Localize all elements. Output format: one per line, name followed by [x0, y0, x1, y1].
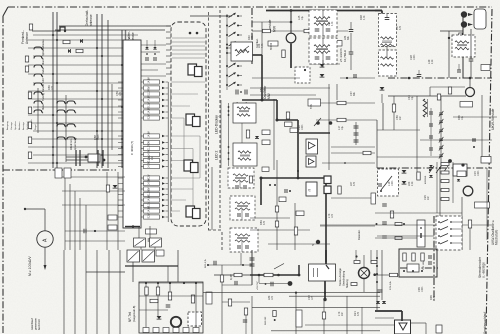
svg-text:LED 2: LED 2 [215, 150, 219, 160]
svg-text:4,7k: 4,7k [363, 15, 366, 20]
svg-text:≈: ≈ [308, 188, 311, 194]
svg-text:spannung: spannung [73, 137, 77, 150]
svg-text:11,2V: 11,2V [148, 89, 151, 95]
svg-text:4,7k: 4,7k [331, 21, 334, 26]
svg-text:11,2V: 11,2V [148, 190, 151, 196]
svg-text:Bandb.: Bandb. [41, 83, 45, 92]
svg-text:14,3V: 14,3V [148, 195, 151, 202]
svg-text:0V: 0V [148, 86, 151, 89]
svg-text:NF-Teil: NF-Teil [128, 312, 132, 322]
svg-text:100n: 100n [97, 134, 100, 140]
svg-text:14,3V: 14,3V [148, 131, 151, 138]
svg-text:14,3V: 14,3V [148, 107, 151, 114]
svg-text:0,2V: 0,2V [148, 174, 151, 179]
svg-text:100n: 100n [421, 286, 424, 292]
svg-text:14,3V: 14,3V [148, 149, 151, 156]
svg-text:22n: 22n [341, 311, 344, 316]
svg-text:C 4090 (7): C 4090 (7) [130, 141, 134, 155]
svg-text:2,2k: 2,2k [431, 59, 434, 64]
svg-text:Anzeige: Anzeige [22, 121, 25, 130]
svg-text:Vorzugs: Vorzugs [10, 121, 13, 130]
svg-text:Stereo: Stereo [41, 39, 45, 47]
svg-text:Sprache: Sprache [41, 46, 45, 56]
svg-text:1n5: 1n5 [311, 295, 314, 300]
svg-text:10,7MHz: 10,7MHz [343, 49, 347, 62]
svg-text:470: 470 [357, 311, 360, 316]
svg-text:470: 470 [353, 181, 356, 186]
svg-text:14,3V: 14,3V [148, 206, 151, 213]
svg-text:14,3V: 14,3V [148, 77, 151, 84]
svg-text:Abstimm: Abstimm [18, 121, 21, 130]
svg-text:22n: 22n [427, 195, 430, 200]
svg-text:10µ: 10µ [263, 87, 266, 92]
svg-text:Antenne: Antenne [25, 32, 29, 44]
svg-text:1n5: 1n5 [271, 295, 274, 300]
svg-text:100n: 100n [413, 54, 416, 60]
svg-text:+5V C47: +5V C47 [257, 281, 259, 290]
svg-text:14,3V: 14,3V [148, 178, 151, 185]
svg-text:Speicher: Speicher [14, 121, 17, 130]
svg-text:0,2V: 0,2V [148, 213, 151, 218]
svg-text:10µ: 10µ [341, 125, 344, 130]
svg-text:100n: 100n [301, 124, 304, 130]
svg-text:2,1V: 2,1V [148, 202, 151, 207]
svg-text:0,2V: 0,2V [148, 114, 151, 119]
svg-text:UKW-Vorstufe: UKW-Vorstufe [491, 108, 495, 130]
svg-text:M ≥ 100kΩ/V: M ≥ 100kΩ/V [28, 256, 32, 276]
svg-text:R66 663: R66 663 [265, 316, 267, 325]
svg-text:Regel: Regel [35, 124, 37, 130]
svg-text:22n: 22n [399, 115, 402, 120]
svg-text:BF440: BF440 [270, 42, 273, 50]
svg-text:10µ: 10µ [461, 115, 464, 120]
svg-text:Suchlauf: Suchlauf [27, 121, 29, 130]
svg-text:4,7k: 4,7k [261, 43, 264, 48]
svg-text:470: 470 [399, 25, 402, 30]
svg-text:R62 4,7k: R62 4,7k [205, 258, 207, 268]
svg-text:Stereo-Anzeige: Stereo-Anzeige [338, 268, 342, 286]
svg-text:MW: MW [267, 93, 271, 99]
svg-text:Mute: Mute [41, 104, 45, 110]
svg-text:470: 470 [263, 220, 266, 225]
svg-text:1n5: 1n5 [51, 85, 54, 90]
svg-text:22n: 22n [151, 155, 154, 160]
svg-text:4618141: 4618141 [425, 175, 427, 184]
svg-text:antenne: antenne [89, 14, 93, 26]
svg-text:Stummsch: Stummsch [30, 119, 33, 130]
svg-text:(Gegentakt-B): (Gegentakt-B) [132, 306, 136, 322]
svg-text:100n: 100n [391, 180, 394, 186]
svg-text:1n5: 1n5 [331, 213, 334, 218]
svg-text:1n5: 1n5 [119, 91, 122, 96]
svg-text:0V: 0V [148, 141, 151, 144]
svg-text:14,3V: 14,3V [148, 161, 151, 168]
svg-text:LED-Display: LED-Display [215, 115, 219, 134]
svg-text:R79 4,6k: R79 4,6k [390, 280, 392, 290]
svg-text:2,2k: 2,2k [411, 181, 414, 186]
svg-text:Tuning: Tuning [41, 93, 45, 101]
svg-text:C93 100n: C93 100n [423, 260, 425, 270]
svg-text:Siebung: Siebung [346, 279, 349, 288]
svg-text:14,3V: 14,3V [148, 95, 151, 102]
svg-text:TCA: TCA [310, 104, 313, 109]
svg-text:Gleichlauf: Gleichlauf [30, 318, 34, 330]
svg-text:Ratiodet.: Ratiodet. [357, 229, 361, 240]
svg-text:2,1V: 2,1V [148, 102, 151, 107]
svg-text:100n: 100n [477, 170, 480, 176]
svg-text:11,2V: 11,2V [148, 144, 151, 150]
svg-text:Mono: Mono [41, 58, 45, 65]
svg-text:u. -anzeige: u. -anzeige [482, 262, 486, 278]
svg-text:Ruhe: Ruhe [41, 67, 45, 74]
svg-text:Sendersuchlauf: Sendersuchlauf [483, 312, 487, 334]
svg-text:100n: 100n [251, 34, 254, 40]
svg-text:10µ: 10µ [411, 95, 414, 100]
svg-text:470: 470 [433, 295, 436, 300]
svg-text:Umschaltung: Umschaltung [342, 270, 346, 286]
svg-text:AFC: AFC [41, 78, 45, 83]
svg-text:10µ: 10µ [301, 15, 304, 20]
svg-text:Mischstufe: Mischstufe [495, 230, 499, 245]
svg-text:bei 10mV: bei 10mV [37, 319, 41, 330]
svg-text:Ausgang: Ausgang [6, 121, 9, 130]
